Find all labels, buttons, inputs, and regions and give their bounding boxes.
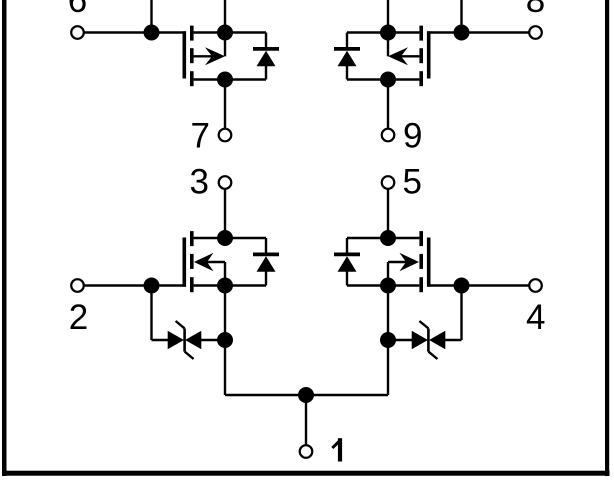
diode D1 anode triangle [257,51,276,66]
transistor Q3 channel source segment [190,277,194,292]
wire Q4 drain lead [388,237,419,239]
transistor Q3 body arrow [194,253,214,271]
wire Q4 source lead [388,284,419,286]
svg-text:9: 9 [403,116,422,155]
TVS Z2 centre bar [427,328,430,351]
diode D4 cathode bar [334,253,360,257]
wire pin5 to Q4 drain [387,189,389,238]
wire Q3 body lead [206,261,225,263]
svg-text:4: 4 [526,298,545,337]
transistor Q1 channel source segment [190,71,194,86]
wire Q2 body tie to drain node [387,33,389,57]
wire Q4 body tie to source node [387,262,389,286]
terminal pin 9 [382,129,395,142]
terminal pin 7 [219,129,232,142]
wire Z1 right lead [201,339,225,341]
wire common bus [225,394,388,396]
TVS Z2 top tick [419,321,428,328]
wire Q3 body tie to source node [224,262,226,286]
wire D2 anode to Q2 source [347,78,388,80]
terminal pin 6 [71,26,84,39]
wire Q1 drain lead [194,31,225,33]
transistor Q2 body arrow [388,47,408,65]
junction Q4 source node [380,278,396,294]
wire pin8 to gate node [462,31,529,33]
wire pin4 to gate node [462,284,529,286]
wire Q4 body lead [388,261,407,263]
wire gate node to Q2 gate [427,31,462,33]
diode D2 anode triangle [338,51,357,66]
wire D3 anode lead [265,271,267,286]
junction Q4 drain node [380,230,396,246]
wire Q2 body lead [399,55,419,57]
wire Z2 right lead [445,339,462,341]
wire Q3 drain to diode D3 [225,237,266,239]
TVS Z1 right triangle [185,331,201,349]
wire D1 anode lead [265,66,267,80]
junction Q1 drain node [217,25,233,41]
transistor Q1 channel drain segment [190,26,194,41]
junction gate node Q3 [144,278,160,294]
wire gate node to Q3 gate [152,284,187,286]
wire D4 anode lead [346,271,348,286]
transistor Q1 channel body segment [190,48,194,63]
wire pin6 to gate node [85,31,152,33]
wire gate node to Q1 gate [152,31,187,33]
junction Q3 source node [217,278,233,294]
diode D3 anode triangle [257,256,276,272]
wire gate node to Q4 gate [427,284,462,286]
junction Z2 node [380,332,396,348]
junction Q3 drain node [217,230,233,246]
label pin 1 [331,438,342,461]
wire gate node down to TVS Z1 [150,286,152,341]
TVS Z1 top tick [176,321,185,328]
terminal pin 5 [382,176,395,189]
wire common node to pin 1 [305,395,307,445]
terminal pin 4 [529,279,542,292]
wire gate riser to top edge (pin 8 net) [460,0,462,33]
wire D2 cathode lead [346,33,348,48]
TVS Z2 right triangle [429,331,445,349]
TVS Z1 bottom tick [185,352,194,359]
wire D1 anode to Q1 source [225,78,266,80]
transistor Q4 channel source segment [419,277,423,292]
transistor Q1 body arrow [205,47,225,65]
terminal pin 3 [219,176,232,189]
transistor Q4 channel drain segment [419,231,423,246]
wire Q1 source to pin 7 [224,80,226,130]
wire Z2 node to common bus [387,340,389,395]
TVS Z1 left triangle [168,331,184,349]
transistor Q3 channel drain segment [190,231,194,246]
transistor Q2 channel drain segment [419,26,423,41]
wire D3 cathode lead [265,238,267,253]
wire Q4 source to Z2 node [387,286,389,341]
junction common node [298,387,314,403]
transistor Q3 gate bar [183,238,187,287]
wire D4 cathode lead [346,238,348,253]
wire D3 anode to Q3 source [225,284,266,286]
wire Q1 body lead [194,55,214,57]
junction Z1 node [217,332,233,348]
wire Q2 drain to diode D2 [347,31,388,33]
diode D4 anode triangle [338,256,357,272]
transistor Q3 channel body segment [190,254,194,269]
wire Q1 drain riser to top edge [224,0,226,33]
wire Z2 left lead [388,339,412,341]
terminal pin 2 [71,279,84,292]
wire Q2 source to pin 9 [387,80,389,130]
TVS Z1 centre bar [183,328,186,351]
junction gate node Q4 [454,278,470,294]
wire D1 cathode lead [265,33,267,48]
wire Q1 body tie to drain node [224,33,226,57]
junction Q2 drain node [380,25,396,41]
wire gate riser to top edge (pin 6 net) [150,0,152,33]
wire Q3 source to Z1 node [224,286,226,341]
wire Q4 drain to diode D4 [347,237,388,239]
terminal pin 8 [529,26,542,39]
wire Q2 drain lead [388,31,419,33]
transistor Q2 channel body segment [419,48,423,63]
wire Q2 drain riser to top edge [387,0,389,33]
terminal pin 1 [300,445,313,458]
junction Q2 source node [380,72,396,88]
wire Q1 source lead [194,78,225,80]
transistor Q1 gate bar [183,31,187,78]
wire pin2 to gate node [85,284,152,286]
wire Z1 node to common bus [224,340,226,395]
transistor Q4 body arrow [400,253,420,271]
wire pin3 to Q3 drain [224,189,226,238]
svg-text:8: 8 [526,0,545,20]
junction Q1 source node [217,72,233,88]
transistor Q4 channel body segment [419,254,423,269]
svg-text:7: 7 [191,116,210,155]
svg-text:2: 2 [69,298,88,337]
wire gate node down to TVS Z2 [460,286,462,341]
wire Z1 left lead [152,339,169,341]
wire D4 anode to Q4 source [347,284,388,286]
transistor Q4 gate bar [427,238,431,287]
wire D2 anode lead [346,66,348,80]
svg-text:3: 3 [190,163,209,202]
transistor Q2 gate bar [427,31,431,78]
wire Q3 drain lead [194,237,225,239]
svg-text:5: 5 [403,163,422,202]
diode D3 cathode bar [253,253,279,257]
junction gate node Q1 [144,25,160,41]
wire Q3 source lead [194,284,225,286]
TVS Z2 left triangle [412,331,428,349]
junction gate node Q2 [454,25,470,41]
transistor Q2 channel source segment [419,71,423,86]
diode D2 cathode bar [334,47,360,51]
wire Q2 source lead [388,78,419,80]
diode D1 cathode bar [253,47,279,51]
svg-text:6: 6 [68,0,87,20]
wire Q1 drain to diode D1 [225,31,266,33]
TVS Z2 bottom tick [428,352,437,359]
